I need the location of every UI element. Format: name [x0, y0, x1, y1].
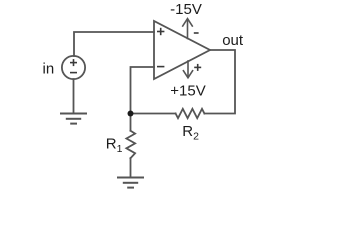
- op-amp - input symbol: [157, 66, 164, 68]
- wire R2 to output corner up to apex: [204, 50, 235, 114]
- op-amp + input symbol: [157, 28, 164, 67]
- positive supply arrow (down): [183, 61, 192, 78]
- plus label of positive supply arrow: [194, 64, 201, 71]
- wire inverting input: from op-amp - input down to node A: [131, 67, 155, 114]
- minus sign of source: [70, 72, 77, 74]
- svg-text:in: in: [43, 61, 55, 78]
- junction node A dot: [128, 111, 134, 117]
- wire source bottom to ground: [73, 79, 75, 113]
- op-amp U1 triangle: [154, 21, 210, 79]
- svg-text:R1: R1: [106, 136, 123, 155]
- negative supply arrow (up): [183, 19, 193, 39]
- resistor R2: [176, 109, 205, 118]
- resistor R1: [126, 131, 135, 159]
- minus label of negative supply arrow: [194, 32, 199, 34]
- ground (source): [61, 114, 86, 124]
- wire R1 bottom to ground: [130, 158, 132, 177]
- wire R1 top: [130, 114, 132, 131]
- voltage source V1 (in): [62, 56, 85, 79]
- plus sign of source: [70, 59, 77, 73]
- wire feedback node A to R2: [131, 113, 176, 115]
- svg-text:+15V: +15V: [170, 83, 205, 100]
- svg-text:R2: R2: [182, 123, 199, 143]
- svg-text:-15V: -15V: [170, 1, 202, 18]
- wire non-inverting input: from source top to op-amp + input: [74, 32, 154, 56]
- svg-text:out: out: [222, 32, 244, 49]
- ground (R1): [118, 178, 143, 188]
